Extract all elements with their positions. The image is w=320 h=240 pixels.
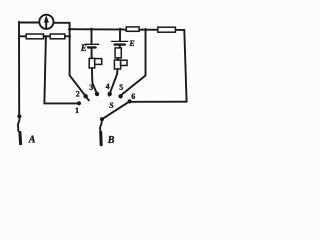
svg-text:4: 4	[106, 82, 110, 91]
node row-tap junction	[45, 35, 48, 38]
resistor R3	[126, 27, 139, 31]
node E1 top junction	[90, 28, 93, 31]
battery E2 branch wire from bus	[119, 29, 121, 41]
node E2 top junction	[119, 28, 122, 31]
wire: node X vertical	[69, 23, 71, 76]
node contact 4	[108, 92, 112, 96]
terminal B bar	[99, 132, 103, 145]
resistor R4	[158, 27, 176, 32]
flag stub on r2b	[121, 60, 127, 65]
terminal A squiggle	[18, 118, 20, 131]
wire: E1 to internal resistor	[91, 49, 93, 59]
svg-text:B: B	[107, 135, 115, 146]
node contact 6	[128, 99, 132, 103]
resistor r1 (E1 internal)	[89, 58, 95, 68]
battery E1 short plate	[88, 46, 96, 48]
terminal B squiggle	[100, 121, 102, 132]
battery E1 branch wire from bus	[91, 29, 93, 44]
node contact 2	[83, 94, 87, 98]
flag stub on r1	[95, 59, 102, 65]
wire: galvanometer right to node X corner	[54, 22, 70, 24]
wire: right tap vertical and diagonal to contact 5	[120, 29, 146, 96]
svg-text:2: 2	[76, 90, 80, 99]
resistor R1	[26, 34, 43, 39]
svg-text:6: 6	[131, 92, 135, 101]
wire: row between R1 and R2	[44, 35, 51, 37]
galvanometer G (circle with up arrow)	[39, 15, 53, 29]
wire: top-left horizontal from corner to galvanometer	[19, 22, 39, 24]
node contact 5	[118, 94, 122, 98]
svg-text:E: E	[80, 43, 87, 53]
node contact 1	[77, 101, 81, 105]
switch S blade from pivot to contact 6	[102, 102, 129, 120]
wire: top right horizontal bus	[70, 28, 185, 31]
svg-text:1: 1	[75, 106, 79, 115]
wire: bottom right horizontal to contact 6	[130, 101, 187, 103]
wire: r1 down to contact 3	[92, 68, 97, 93]
svg-text:5: 5	[119, 83, 123, 92]
battery E1 long plate	[85, 43, 99, 45]
wire: left vertical (top corner down to switch A)	[18, 22, 20, 116]
svg-text:A: A	[28, 134, 36, 145]
wire: right edge vertical	[184, 30, 186, 102]
node right tap junction	[144, 28, 147, 31]
wire: E2 to resistor stack	[119, 46, 121, 48]
terminal A bar	[18, 132, 22, 144]
wire: short link between stacked resistors	[117, 58, 119, 60]
svg-text:3: 3	[89, 83, 93, 92]
wire: row R2 to node X vertical	[65, 35, 70, 37]
node switch A top	[17, 114, 21, 118]
resistor r2a (E2 stack upper)	[115, 48, 121, 58]
node contact 3	[95, 92, 99, 96]
resistor R2	[50, 34, 65, 39]
wire: r2b down to contact 4	[109, 69, 118, 96]
node X top junction	[68, 28, 71, 31]
svg-text:S: S	[109, 101, 114, 110]
wire: resistor row left segment	[19, 35, 26, 37]
battery E2 long plate	[112, 40, 128, 42]
node X row junction	[68, 35, 71, 38]
svg-text:E: E	[128, 39, 134, 48]
wire: diagonal from node X to contact 2	[70, 75, 89, 100]
wire: middle tap vertical down then right to contact 1	[44, 37, 77, 104]
resistor r2b (E2 stack lower)	[114, 60, 120, 69]
battery E2 short plate	[115, 43, 125, 45]
node switch S pivot	[100, 117, 104, 121]
